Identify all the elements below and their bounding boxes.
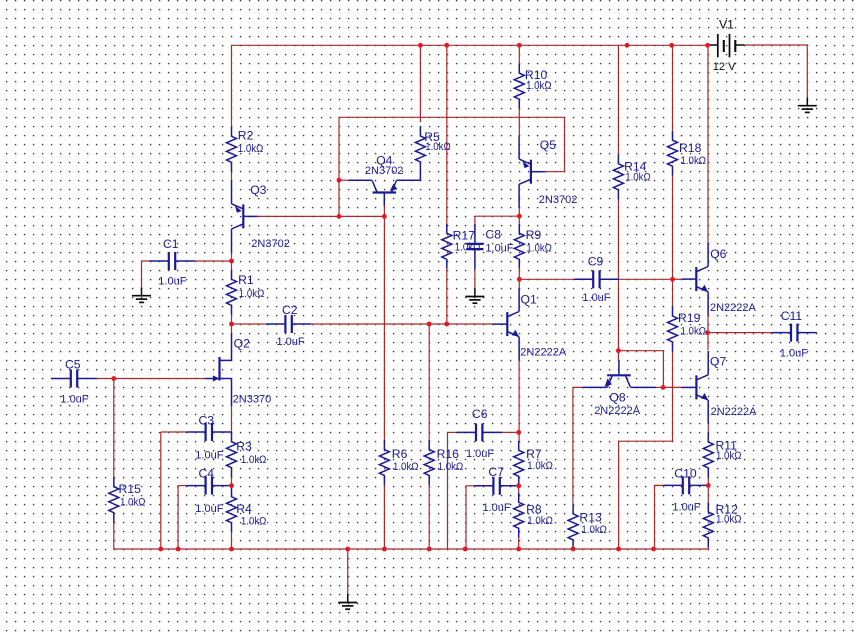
svg-text:1.0kΩ: 1.0kΩ	[241, 454, 267, 466]
junction	[516, 483, 521, 488]
wire	[519, 278, 574, 280]
wire	[419, 45, 421, 122]
svg-text:C1: C1	[163, 237, 179, 251]
wire	[672, 45, 674, 130]
svg-text:C3: C3	[199, 413, 215, 427]
wire	[231, 315, 233, 324]
wire	[744, 45, 807, 98]
svg-text:C9: C9	[588, 254, 604, 268]
wire	[231, 45, 233, 127]
svg-text:1.0uF: 1.0uF	[582, 292, 610, 304]
ground	[798, 98, 817, 113]
svg-text:1.0kΩ: 1.0kΩ	[527, 515, 553, 527]
svg-text:1.0uF: 1.0uF	[672, 502, 700, 514]
wire	[656, 386, 663, 388]
resistor R1	[227, 270, 237, 315]
capacitor C8	[466, 224, 483, 269]
wire	[383, 206, 385, 216]
wire	[663, 386, 682, 388]
wire	[113, 379, 115, 478]
junction	[517, 277, 522, 282]
transistor Q6	[682, 243, 708, 315]
svg-text:1.0uF: 1.0uF	[466, 448, 494, 460]
junction	[463, 547, 468, 552]
wire	[232, 44, 710, 46]
junction	[571, 547, 576, 552]
wire	[231, 261, 233, 270]
junction	[669, 43, 674, 48]
junction	[229, 259, 234, 264]
svg-text:1.0kΩ: 1.0kΩ	[526, 242, 552, 254]
svg-text:R17: R17	[453, 228, 476, 242]
svg-text:1.0uF: 1.0uF	[195, 450, 223, 462]
svg-text:2N3702: 2N3702	[365, 165, 404, 177]
wire	[177, 486, 179, 549]
wire	[619, 352, 673, 550]
transistor Q1	[493, 288, 519, 360]
junction	[229, 322, 234, 327]
svg-text:C6: C6	[472, 407, 488, 421]
wire	[339, 117, 565, 216]
capacitor C5	[52, 370, 97, 388]
svg-text:1.0kΩ: 1.0kΩ	[681, 326, 707, 338]
junction	[345, 547, 350, 552]
svg-text:1.0kΩ: 1.0kΩ	[581, 524, 607, 536]
wire	[447, 432, 449, 549]
wire	[617, 199, 619, 350]
wire	[160, 432, 162, 549]
junction	[337, 214, 342, 219]
wire	[231, 406, 233, 432]
svg-text:2N3702: 2N3702	[251, 238, 290, 250]
wire	[518, 208, 520, 216]
junction	[705, 330, 710, 335]
capacitor C9	[574, 270, 619, 288]
svg-text:2N2222A: 2N2222A	[594, 405, 641, 417]
junction	[176, 547, 181, 552]
svg-text:2N3370: 2N3370	[233, 394, 272, 406]
wire	[142, 261, 150, 288]
svg-text:Q1: Q1	[521, 292, 537, 306]
wire	[518, 216, 520, 224]
svg-text:V1: V1	[719, 18, 734, 32]
wire	[474, 269, 476, 288]
wire	[466, 485, 474, 487]
resistor R13	[568, 504, 578, 549]
svg-text:1.0uF: 1.0uF	[780, 347, 808, 359]
svg-text:2N2222A: 2N2222A	[520, 346, 567, 358]
svg-text:C2: C2	[282, 303, 298, 317]
resistor R18	[668, 131, 678, 176]
svg-text:2N2222A: 2N2222A	[710, 302, 757, 314]
wire	[428, 324, 430, 440]
svg-text:2N2222A: 2N2222A	[711, 406, 758, 418]
resistor R4	[227, 487, 237, 532]
svg-text:12 V: 12 V	[713, 61, 736, 73]
junction	[516, 430, 521, 435]
wire	[518, 538, 520, 549]
svg-text:1.0kΩ: 1.0kΩ	[681, 155, 707, 167]
svg-text:Q8: Q8	[609, 391, 625, 405]
resistor R12	[703, 503, 713, 548]
wire	[518, 269, 520, 280]
wire	[448, 431, 457, 433]
svg-text:1.0kΩ: 1.0kΩ	[716, 513, 742, 525]
resistor R11	[703, 433, 713, 478]
wire	[518, 109, 520, 136]
junction	[616, 348, 621, 353]
svg-text:R19: R19	[678, 311, 701, 325]
svg-text:1.0kΩ: 1.0kΩ	[120, 497, 146, 509]
svg-text:1.0uF: 1.0uF	[485, 242, 513, 254]
svg-text:1.0uF: 1.0uF	[277, 336, 305, 348]
svg-text:1.0uF: 1.0uF	[195, 503, 223, 515]
wire	[673, 278, 683, 280]
wire	[232, 323, 267, 325]
wire	[672, 279, 674, 306]
svg-text:1.0uF: 1.0uF	[60, 393, 88, 405]
wire	[474, 216, 476, 224]
capacitor C3	[186, 423, 231, 441]
wire	[231, 252, 233, 261]
junction	[705, 43, 710, 48]
resistor R15	[109, 477, 119, 522]
wire	[475, 215, 519, 217]
wire	[518, 348, 520, 441]
wire	[231, 324, 233, 333]
wire	[311, 323, 493, 325]
svg-text:R3: R3	[236, 440, 252, 454]
resistor R2	[227, 127, 237, 172]
junction	[427, 322, 432, 327]
svg-text:C7: C7	[488, 465, 504, 479]
svg-text:C10: C10	[674, 467, 697, 481]
svg-text:R6: R6	[392, 447, 408, 461]
wire	[231, 532, 233, 549]
wire	[655, 485, 664, 549]
resistor R3	[227, 432, 237, 477]
wire	[446, 45, 448, 224]
ground	[338, 594, 357, 609]
wire	[617, 351, 619, 361]
transistor Q3	[232, 180, 258, 252]
svg-text:1.0kΩ: 1.0kΩ	[625, 172, 651, 184]
junction	[661, 385, 666, 390]
svg-text:1.0kΩ: 1.0kΩ	[241, 515, 267, 527]
wire	[502, 431, 519, 433]
junction	[517, 214, 522, 219]
svg-text:1.0kΩ: 1.0kΩ	[393, 461, 419, 473]
wire	[707, 315, 709, 333]
svg-text:C5: C5	[65, 358, 81, 372]
wire	[383, 485, 385, 549]
resistor R19	[668, 307, 678, 352]
ground	[132, 288, 151, 303]
wire	[672, 176, 674, 280]
junction	[444, 43, 449, 48]
junction	[670, 277, 675, 282]
svg-text:1.0kΩ: 1.0kΩ	[527, 460, 553, 472]
capacitor C4	[186, 477, 231, 495]
junction	[516, 547, 521, 552]
svg-text:R2: R2	[238, 128, 254, 142]
capacitor C1	[150, 252, 195, 270]
svg-text:1.0uF: 1.0uF	[483, 502, 511, 514]
svg-text:R4: R4	[236, 502, 252, 516]
capacitor C2	[266, 315, 311, 333]
wire	[518, 486, 520, 493]
resistor R17	[442, 224, 452, 269]
resistor R6	[379, 440, 389, 485]
svg-text:C8: C8	[485, 228, 501, 242]
battery V1	[710, 34, 745, 57]
junction	[517, 43, 522, 48]
svg-text:R13: R13	[579, 510, 602, 524]
svg-text:R1: R1	[238, 273, 254, 287]
resistor R5	[415, 127, 425, 172]
svg-text:Q5: Q5	[540, 138, 556, 152]
junction	[111, 376, 116, 381]
wire	[347, 549, 349, 594]
svg-text:R16: R16	[437, 447, 460, 461]
wire	[178, 485, 186, 487]
svg-text:1.0kΩ: 1.0kΩ	[526, 80, 552, 92]
wire	[231, 477, 233, 485]
junction	[651, 547, 656, 552]
wire	[618, 351, 663, 388]
resistor R16	[424, 440, 434, 485]
junction	[382, 547, 387, 552]
wire	[707, 485, 709, 502]
svg-text:C11: C11	[781, 309, 803, 323]
wire	[258, 215, 385, 217]
wire	[518, 45, 520, 63]
capacitor C10	[664, 476, 709, 494]
wire	[195, 260, 232, 262]
wire	[708, 332, 772, 334]
capacitor C7	[474, 477, 519, 495]
junction	[616, 547, 621, 552]
svg-text:1.0uF: 1.0uF	[158, 276, 186, 288]
svg-text:C4: C4	[199, 467, 215, 481]
wire	[114, 522, 709, 549]
svg-text:1.0kΩ: 1.0kΩ	[425, 141, 451, 153]
junction	[418, 43, 423, 48]
wire	[161, 431, 187, 433]
junction	[427, 547, 432, 552]
wire	[428, 485, 430, 549]
wire	[339, 179, 349, 181]
transistor Q5	[519, 136, 545, 208]
svg-text:2N3702: 2N3702	[539, 194, 578, 206]
svg-text:1.0kΩ: 1.0kΩ	[716, 450, 742, 462]
wire	[518, 279, 520, 288]
transistor Q8	[583, 360, 656, 387]
svg-text:R15: R15	[119, 482, 142, 496]
resistor R8	[514, 493, 524, 538]
junction	[229, 483, 234, 488]
wire	[707, 548, 709, 550]
transistor Q4	[349, 180, 421, 206]
svg-text:Q7: Q7	[710, 355, 726, 369]
wire	[707, 478, 709, 486]
capacitor C6	[457, 423, 502, 441]
wire	[465, 486, 467, 549]
wire	[707, 424, 709, 433]
wire	[573, 387, 583, 504]
svg-text:R18: R18	[679, 141, 702, 155]
resistor R14	[613, 154, 623, 199]
svg-text:1.0kΩ: 1.0kΩ	[239, 288, 264, 300]
svg-text:Q6: Q6	[710, 247, 726, 261]
svg-text:R7: R7	[526, 447, 542, 461]
wire	[707, 333, 709, 351]
transistor Q7	[682, 351, 708, 423]
wire	[619, 278, 673, 280]
ground	[465, 288, 484, 303]
junction	[625, 43, 630, 48]
junction	[158, 547, 163, 552]
wire	[97, 378, 206, 380]
wire	[446, 269, 448, 324]
junction	[229, 547, 234, 552]
resistor R10	[514, 64, 524, 109]
svg-text:Q2: Q2	[234, 337, 250, 351]
svg-text:1.0kΩ: 1.0kΩ	[438, 461, 464, 473]
svg-text:R9: R9	[526, 228, 542, 242]
transistor Q2	[205, 333, 231, 406]
wire	[383, 216, 385, 440]
junction	[382, 214, 387, 219]
resistor R7	[514, 441, 524, 486]
wire	[617, 45, 619, 154]
svg-text:Q3: Q3	[250, 183, 266, 197]
wire	[231, 172, 233, 180]
resistor R9	[514, 224, 524, 269]
wire	[707, 45, 709, 243]
capacitor C11	[772, 324, 817, 342]
junction	[337, 178, 342, 183]
junction	[706, 483, 711, 488]
junction	[444, 322, 449, 327]
svg-text:1.0kΩ: 1.0kΩ	[238, 143, 263, 155]
